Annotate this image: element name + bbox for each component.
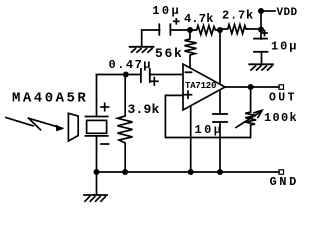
junction dot rail/transducer	[94, 169, 100, 175]
plus mark of transducer	[101, 103, 109, 110]
node A junction dot	[187, 27, 193, 33]
capacitor C3 0.47u (coupling, horizontal)	[141, 69, 150, 82]
capacitor C4 10u (below op-amp, vertical)	[213, 114, 227, 122]
resistor 56k (vertical, from node A)	[185, 30, 197, 68]
ground (below C2)	[249, 64, 273, 70]
svg-text:10µ: 10µ	[195, 123, 224, 137]
wire C3 to op-amp inverting input	[150, 74, 183, 76]
plus mark of C1	[174, 19, 179, 24]
transducer element plates and crystal	[86, 117, 108, 136]
minus mark of transducer	[101, 143, 109, 145]
svg-text:56k: 56k	[155, 46, 184, 61]
incoming ultrasound arrow	[6, 118, 64, 132]
node F junction dot	[123, 72, 129, 78]
OUT terminal	[279, 85, 284, 90]
wire node B down to op-amp top edge	[219, 30, 221, 84]
resistor 2.7k (horizontal)	[220, 25, 261, 34]
wire node C down to capacitor C2	[260, 30, 262, 40]
svg-text:10µ: 10µ	[152, 4, 181, 18]
wire down to transducer top	[96, 75, 98, 117]
plus mark of C3	[151, 78, 159, 85]
wire op-amp bottom to capacitor C4	[219, 90, 221, 114]
resistor 3.9k (vertical)	[118, 75, 133, 173]
potentiometer arrow	[236, 110, 262, 127]
wire node E down to potentiometer	[250, 87, 252, 112]
svg-text:VDD: VDD	[277, 7, 298, 19]
junction dot rail/C4	[217, 169, 223, 175]
minus mark of op-amp inverting input	[186, 71, 192, 73]
wire C1 right plate to node A	[171, 29, 190, 31]
transducer MA40A5R cone	[68, 113, 78, 141]
wire node D to VDD terminal	[261, 10, 275, 12]
GND terminal	[279, 170, 284, 175]
svg-text:2.7k: 2.7k	[222, 9, 254, 23]
node C junction dot	[258, 27, 264, 33]
svg-text:MA40A5R: MA40A5R	[12, 91, 88, 107]
wire transducer to node F	[97, 74, 141, 76]
ground (bottom left)	[84, 195, 107, 201]
junction dot rail/op-amp ground	[188, 169, 194, 175]
wire C2 to ground	[261, 52, 263, 64]
potentiometer 100k (vertical)	[245, 112, 256, 138]
op-amp U1 TA7120	[183, 64, 225, 110]
plus mark of C2	[262, 31, 267, 36]
wire below op-amp to ground rail	[190, 106, 192, 172]
svg-text:TA7120: TA7120	[185, 81, 216, 91]
svg-text:0.47µ: 0.47µ	[109, 58, 153, 72]
capacitor C1 10u (top left, horizontal)	[159, 24, 170, 35]
wire transducer bottom to ground rail	[96, 136, 98, 172]
wire rail to ground symbol	[96, 172, 98, 195]
node B junction dot	[217, 27, 223, 33]
node E junction dot	[248, 84, 254, 90]
svg-text:4.7k: 4.7k	[184, 12, 214, 26]
svg-text:3.9k: 3.9k	[128, 102, 160, 117]
capacitor C2 10u (right, vertical)	[254, 39, 268, 52]
node D junction dot	[258, 8, 264, 14]
svg-text:10µ: 10µ	[271, 40, 298, 54]
junction dot rail/3.9k	[122, 169, 128, 175]
plus mark of op-amp non-inverting input	[185, 91, 192, 98]
ground rail (bottom)	[97, 171, 280, 173]
wire op-amp output to OUT	[225, 86, 279, 88]
svg-text:OUT: OUT	[269, 92, 297, 105]
wire C4 to ground rail	[219, 122, 221, 172]
svg-text:100k: 100k	[264, 111, 298, 125]
wire node C up to node D	[260, 11, 262, 30]
resistor 4.7k (horizontal)	[190, 26, 220, 35]
wire top rail left of capacitor C1	[142, 29, 160, 31]
wire from C1 down to ground	[141, 30, 143, 46]
svg-text:GND: GND	[270, 175, 299, 189]
ground (top left)	[130, 47, 154, 52]
wire op-amp non-inverting input loop	[165, 95, 250, 137]
